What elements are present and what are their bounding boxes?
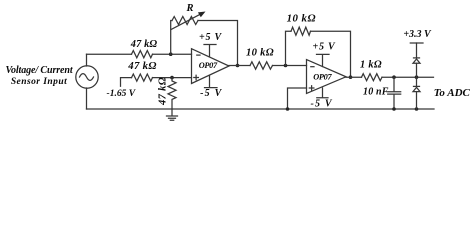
wire left vertical top: [86, 54, 88, 66]
svg-text:Voltage/ Current: Voltage/ Current: [5, 65, 73, 76]
wire output to ADC: [382, 76, 434, 78]
resistor R7 1k: [362, 74, 382, 81]
wire feedback 2 left vertical: [286, 31, 292, 65]
svg-text:OP07: OP07: [199, 61, 218, 70]
svg-text:-5 V: -5 V: [200, 88, 222, 99]
wire feedback 2 right: [311, 31, 351, 77]
resistor R2 47k mid: [132, 74, 153, 81]
svg-text:OP07: OP07: [313, 73, 332, 82]
resistor R4 variable R feedback: [172, 17, 198, 25]
wire U2 plus input to rail: [288, 88, 307, 109]
wire mid branch right to U1 plus: [153, 77, 192, 79]
U2 plus sign: [309, 86, 314, 91]
resistor R5 10k series: [250, 62, 273, 69]
svg-text:47 kΩ: 47 kΩ: [130, 39, 158, 50]
wire -1.65V stub: [121, 78, 132, 87]
U1 +5V supply: [204, 45, 216, 57]
wire feedback 1 top right: [198, 21, 238, 66]
wire U2 output: [346, 76, 362, 78]
svg-text:+3.3 V: +3.3 V: [403, 29, 432, 40]
+3.3V supply: [410, 42, 423, 44]
diode D1 upper clamp: [416, 63, 418, 77]
U2 -5V supply: [317, 88, 328, 98]
wire top branch left: [87, 53, 132, 55]
svg-text:47 kΩ: 47 kΩ: [157, 77, 168, 106]
svg-text:10 kΩ: 10 kΩ: [287, 12, 316, 24]
U1 minus sign: [197, 54, 200, 56]
svg-text:-1.65 V: -1.65 V: [107, 89, 136, 99]
svg-text:1 kΩ: 1 kΩ: [360, 60, 382, 71]
svg-text:10 nF: 10 nF: [363, 87, 389, 98]
node N6: [286, 107, 290, 111]
wire to U2 minus: [273, 65, 307, 67]
svg-text:+5 V: +5 V: [199, 32, 223, 43]
wire left vertical bottom: [86, 88, 88, 109]
node N7: [392, 75, 396, 79]
wire bottom rail: [87, 108, 435, 110]
resistor R1 47k top: [132, 51, 153, 58]
wire U1 output: [229, 65, 250, 67]
wire feedback 1 left vertical: [171, 21, 172, 55]
svg-text:-5 V: -5 V: [310, 99, 332, 110]
node N5 output U2: [349, 75, 353, 79]
diode D2 lower clamp: [416, 77, 418, 86]
node N1 inverting input: [169, 52, 173, 56]
svg-text:Sensor Input: Sensor Input: [11, 77, 67, 87]
U1 -5V supply: [205, 75, 218, 87]
op-amp U1: [192, 49, 230, 84]
U1 plus sign: [194, 75, 199, 80]
svg-text:10 kΩ: 10 kΩ: [246, 47, 274, 58]
node N9: [392, 107, 396, 111]
resistor R3 47k vertical to ground: [168, 78, 176, 109]
svg-text:R: R: [185, 3, 193, 14]
resistor R6 10k feedback: [291, 27, 310, 35]
node N3 output U1: [236, 64, 240, 68]
source V1: [76, 66, 98, 88]
svg-text:To ADC: To ADC: [434, 87, 471, 99]
node N10: [415, 107, 419, 111]
node N8: [415, 75, 419, 79]
U2 +5V supply: [317, 54, 330, 66]
capacitor C1 10nF: [388, 77, 401, 109]
arrow of variable resistor: [171, 14, 201, 30]
U2 minus sign: [311, 66, 314, 68]
wire top branch right to U1: [153, 53, 192, 55]
node N2 noninverting input: [170, 76, 174, 80]
ground: [167, 109, 178, 120]
node N4: [284, 64, 288, 68]
op-amp U2: [307, 60, 347, 94]
svg-text:+5 V: +5 V: [312, 41, 336, 52]
svg-text:47 kΩ: 47 kΩ: [127, 60, 156, 72]
